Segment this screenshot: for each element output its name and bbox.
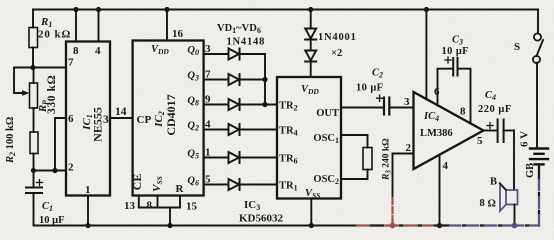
svg-text:15: 15 xyxy=(186,201,198,213)
svg-text:KD56032: KD56032 xyxy=(239,213,284,225)
resistor R1 xyxy=(29,10,71,68)
svg-text:4: 4 xyxy=(443,160,449,172)
battery GB 6V xyxy=(519,131,549,178)
wire NE555 pin1 to ground xyxy=(87,196,89,226)
svg-text:VD1~VD6: VD1~VD6 xyxy=(217,23,261,35)
wire battery negative blue dashed xyxy=(538,164,540,225)
wire pin2 row xyxy=(34,170,67,172)
capacitor C2 10uF xyxy=(341,68,414,115)
svg-text:6: 6 xyxy=(68,113,74,125)
op IC3 KD56032 box xyxy=(239,77,341,225)
speaker B 8ohm xyxy=(480,131,518,226)
wire ground rail blue dash-dot segment xyxy=(450,224,539,226)
svg-text:8: 8 xyxy=(480,198,485,209)
svg-text:16: 16 xyxy=(172,28,184,40)
svg-text:R2 100 kΩ: R2 100 kΩ xyxy=(5,117,17,164)
wire NE555 pin3 to CP xyxy=(110,117,133,119)
svg-text:7: 7 xyxy=(205,69,211,81)
potentiometer RP 330k xyxy=(14,68,58,133)
node red junction xyxy=(390,223,396,229)
wire pin7 xyxy=(33,67,66,69)
svg-text:3: 3 xyxy=(205,43,211,55)
svg-text:CP: CP xyxy=(137,114,152,126)
svg-text:10 μF: 10 μF xyxy=(39,215,65,226)
capacitor C3 10uF gain pins 1-8 xyxy=(438,35,471,124)
diode VD2 xyxy=(229,74,266,85)
op IC2 CD4017 box xyxy=(130,41,204,196)
svg-text:S: S xyxy=(514,41,520,53)
svg-text:R3 240 kΩ: R3 240 kΩ xyxy=(382,138,393,181)
wire pin2 red dashed ground segment xyxy=(391,198,393,226)
node pin6 drop junction xyxy=(52,168,57,173)
svg-text:1: 1 xyxy=(85,184,91,196)
svg-text:20 kΩ: 20 kΩ xyxy=(38,29,71,41)
wire LM386 pin6 xyxy=(425,10,427,100)
wire ground rail red dash-dot segment xyxy=(357,224,448,226)
svg-text:4: 4 xyxy=(205,119,211,131)
switch S xyxy=(514,10,543,149)
wire NE555 pin4 xyxy=(98,10,100,42)
wire LM386 pin2 xyxy=(393,142,414,198)
svg-text:NE555: NE555 xyxy=(91,107,105,142)
CD4017 ground pins 13 8 15 xyxy=(124,196,198,229)
svg-text:9: 9 xyxy=(205,94,211,106)
svg-text:OUT: OUT xyxy=(316,108,339,119)
svg-text:3: 3 xyxy=(404,96,410,108)
svg-text:330 kΩ: 330 kΩ xyxy=(46,75,58,114)
node pin7 junction xyxy=(30,65,35,70)
svg-text:8: 8 xyxy=(147,200,153,212)
op IC1 NE555 box xyxy=(66,42,110,197)
svg-text:7: 7 xyxy=(68,57,74,69)
svg-text:GB: GB xyxy=(525,163,536,178)
svg-text:5: 5 xyxy=(205,174,211,186)
svg-text:R: R xyxy=(176,183,185,195)
svg-text:CD4017: CD4017 xyxy=(164,94,178,135)
CD4017 output stubs and pin numbers xyxy=(204,43,228,186)
capacitor C4 220uF xyxy=(478,90,514,142)
diode VD3 xyxy=(229,99,278,110)
node diode bus j2 xyxy=(262,102,267,107)
resistor R3 240k xyxy=(341,135,393,181)
wire LM386 pin4 xyxy=(439,155,441,226)
svg-text:×2: ×2 xyxy=(331,48,342,59)
wire NE555 pin8 xyxy=(75,10,77,42)
svg-text:1: 1 xyxy=(205,147,211,159)
wire CD4017 pin16 xyxy=(166,10,168,41)
node pin2 junction xyxy=(31,168,36,173)
svg-text:14: 14 xyxy=(115,106,127,118)
wire top supply rail xyxy=(33,9,538,11)
diode VD4 xyxy=(229,124,278,135)
svg-text:CE: CE xyxy=(130,174,144,191)
wire KD VSS to ground xyxy=(310,199,312,226)
svg-text:B: B xyxy=(490,177,497,188)
svg-text:13: 13 xyxy=(124,200,136,212)
svg-text:1N4148: 1N4148 xyxy=(227,37,266,48)
node speaker ground junction blue xyxy=(512,223,518,229)
svg-text:8: 8 xyxy=(73,45,79,57)
svg-text:Ω: Ω xyxy=(488,199,496,210)
svg-text:2: 2 xyxy=(406,142,412,154)
svg-text:1N4001: 1N4001 xyxy=(318,32,357,43)
svg-text:2: 2 xyxy=(68,162,74,174)
svg-text:10 μF: 10 μF xyxy=(356,83,384,94)
svg-text:10 μF: 10 μF xyxy=(442,46,470,57)
wire pin6 stub xyxy=(55,118,66,171)
diode VD6 xyxy=(229,179,278,190)
node diode bus j1 xyxy=(262,77,267,82)
wire diode bus xyxy=(264,80,266,105)
op-amp IC4 LM386 triangle xyxy=(414,92,484,169)
svg-text:5: 5 xyxy=(477,135,483,147)
svg-text:6 V: 6 V xyxy=(519,131,531,147)
diode 1N4001 x2 xyxy=(305,7,356,77)
svg-text:4: 4 xyxy=(95,45,101,57)
diode VD1 xyxy=(229,49,266,80)
svg-text:8: 8 xyxy=(460,106,466,118)
resistor R2 100k xyxy=(5,117,38,171)
svg-text:LM386: LM386 xyxy=(420,128,453,139)
wire bottom ground rail black xyxy=(34,225,358,227)
wire LM386 pin5 output xyxy=(484,130,498,132)
diode VD5 xyxy=(229,152,278,163)
capacitor C1 10uF xyxy=(26,171,65,227)
svg-text:220 μF: 220 μF xyxy=(478,104,512,115)
